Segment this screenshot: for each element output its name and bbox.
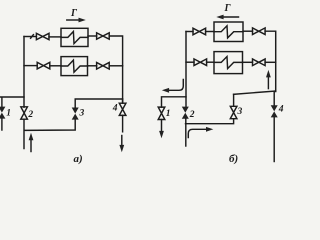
flow arrow right (top, left diagram) [67, 18, 86, 23]
valve (bowtie) row2 right [97, 63, 110, 70]
wire: valve 3 down to cross link (b) [186, 119, 234, 124]
wire: box2 to valve (b) [243, 61, 253, 63]
svg-text:1: 1 [166, 109, 171, 119]
svg-text:2: 2 [189, 110, 195, 120]
wire: row2 from bus to valve (b) [186, 61, 194, 63]
wire: left bus vertical (diagram b) [185, 32, 187, 107]
wire: row1 from bus to valve [24, 36, 36, 38]
wire: box1 to valve [88, 35, 97, 37]
svg-text:3: 3 [237, 107, 243, 117]
wire: valve 4 drop from link (b) [273, 91, 275, 105]
svg-text:Г: Г [224, 3, 232, 14]
valve (bowtie) row1 right [97, 33, 110, 39]
wire below valve 2 down to end (b) [185, 119, 187, 146]
valve 2 (closed, filled) (b) [182, 107, 189, 119]
wire: valve to right bus (b) [265, 61, 276, 63]
valve 3 (closed, filled) [72, 108, 79, 120]
valve (bowtie) row2 right (b) [253, 59, 266, 66]
valve 4 (closed, filled) (b) [271, 105, 278, 117]
wire: row2 from bus to valve [24, 65, 37, 67]
valve (bowtie) row1 left (b) [193, 28, 206, 35]
wire: valve to right bus [109, 65, 122, 67]
svg-text:4: 4 [278, 105, 284, 115]
wire below valve 1 [1, 119, 3, 130]
wire: right bus through to valve 4 [122, 99, 124, 103]
svg-text:Г: Г [70, 8, 78, 19]
flow arrow down (bottom right of diagram a) [119, 136, 124, 153]
valve 2 (open) [21, 107, 28, 119]
bent flow arrow (bottom, pointing right) (b) [188, 127, 213, 138]
wire below valve 1 (b) [161, 120, 163, 132]
wire: valve to box1 [49, 36, 61, 38]
svg-text:2: 2 [27, 110, 33, 120]
valve 1 (open) (b) [158, 107, 165, 119]
wire: box1 to valve (b) [243, 30, 253, 32]
wire: valve 3 up to cross link [75, 99, 122, 108]
wire: branch to valve 1 [0, 97, 24, 107]
wire: valve to box1 (b) [206, 31, 214, 33]
svg-text:б): б) [229, 153, 238, 165]
flow arrow up (bottom left of diagram a) [29, 133, 34, 152]
svg-text:1: 1 [6, 109, 11, 119]
wire below valve 4 [122, 115, 124, 131]
valve (bowtie) row2 left (b) [194, 59, 207, 66]
wire: valve to box2 [50, 65, 61, 67]
wire: valve 3 drop (b) [233, 94, 235, 106]
valve (bowtie) row2 left [37, 62, 50, 69]
svg-text:4: 4 [112, 104, 118, 114]
wire below valve 4 (b) [273, 117, 275, 161]
valve 3 (open) (b) [230, 106, 237, 118]
wire: valve to right bus corner (b) [265, 31, 276, 91]
wire: valve to box2 (b) [207, 61, 214, 63]
flow arrowhead down below valve 1 (b) [159, 131, 164, 138]
valve (bowtie) row1 left [36, 33, 49, 39]
heater zigzag in box 2 [61, 60, 88, 72]
svg-text:а): а) [74, 153, 83, 165]
valve (bowtie) row1 right (b) [253, 28, 266, 35]
tick mark on row1 [31, 35, 34, 39]
heat exchanger box 1 (right diagram) [214, 22, 243, 42]
valve 4 (open) [119, 103, 126, 115]
svg-text:3: 3 [79, 109, 85, 119]
wire: row1 from bus to valve [186, 31, 193, 33]
flow arrow up (right side of diagram b) [266, 70, 271, 89]
heater zigzag in box 2 (b) [214, 57, 243, 69]
heater zigzag in box 1 [61, 32, 88, 44]
heat exchanger box 1 (left diagram) [61, 28, 88, 46]
bent flow arrow (left, pointing left) (b) [162, 80, 184, 93]
wire: below valve 2 to bottom link [24, 119, 75, 148]
wire: branch to valve 1 (b) [162, 97, 187, 107]
wire: left bus vertical [23, 37, 25, 108]
wire: right bus corner to valve 3 branch (b) [234, 91, 276, 94]
heat exchanger box 2 (left diagram) [61, 57, 88, 76]
valve 1 (closed, filled) [0, 107, 5, 119]
heat exchanger box 2 (right diagram) [214, 52, 243, 74]
wire: box2 to valve [88, 65, 97, 67]
wire: valve to right bus corner [109, 36, 122, 103]
flow arrow left (top, right diagram) [216, 15, 238, 20]
heater zigzag in box 1 (b) [214, 26, 243, 38]
